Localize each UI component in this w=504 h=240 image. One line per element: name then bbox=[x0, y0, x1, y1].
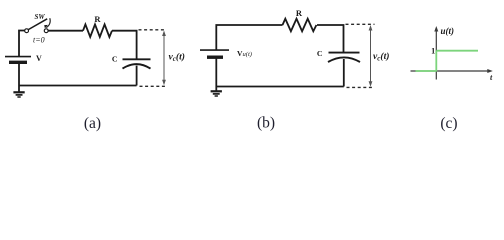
ground (a) bbox=[13, 86, 24, 98]
svg-text:1: 1 bbox=[431, 47, 435, 56]
bottom wire (a) bbox=[19, 85, 137, 87]
dashed lead bottom (a) bbox=[140, 85, 166, 87]
svg-text:t=0: t=0 bbox=[33, 35, 45, 44]
svg-text:t: t bbox=[490, 73, 493, 82]
resistor R (a) bbox=[83, 24, 112, 37]
battery Vu(t) (b) bbox=[200, 50, 229, 57]
svg-text:C: C bbox=[112, 55, 118, 64]
step function u(t) green trace bbox=[416, 51, 479, 72]
capacitor C (b) bbox=[328, 53, 360, 62]
arrow vc(t) (a) bbox=[162, 31, 166, 86]
wire top-left stub circuit a bbox=[19, 31, 25, 57]
svg-text:(b): (b) bbox=[257, 114, 275, 131]
dashed lead top (b) bbox=[346, 23, 375, 25]
svg-text:vc(t): vc(t) bbox=[373, 51, 389, 63]
wire resistor to right corner (b) bbox=[317, 25, 344, 53]
bottom wire (b) bbox=[216, 86, 343, 88]
svg-text:R: R bbox=[296, 8, 303, 18]
ground (b) bbox=[211, 87, 222, 97]
capacitor C (a) bbox=[123, 59, 151, 68]
wire battery to bottom (a) bbox=[18, 62, 20, 85]
wire top-left corner circuit b bbox=[216, 25, 282, 50]
resistor R (b) bbox=[283, 19, 317, 32]
svg-text:R: R bbox=[94, 14, 101, 24]
arrow vc(t) (b) bbox=[369, 25, 373, 87]
svg-text:V: V bbox=[36, 54, 42, 63]
svg-text:(c): (c) bbox=[440, 115, 457, 132]
dashed lead bottom (b) bbox=[347, 86, 375, 88]
svg-text:vc(t): vc(t) bbox=[169, 51, 185, 63]
wire battery to bottom (b) bbox=[215, 57, 217, 86]
switch SW bbox=[25, 18, 51, 32]
svg-text:u(t): u(t) bbox=[441, 26, 455, 36]
wire switch to resistor bbox=[48, 30, 83, 32]
svg-text:C: C bbox=[317, 49, 323, 58]
wire capacitor to bottom (b) bbox=[343, 59, 345, 87]
wire capacitor to bottom (a) bbox=[136, 66, 138, 86]
axis vertical u(t) graph bbox=[434, 26, 438, 80]
dashed lead top (a) bbox=[139, 29, 166, 31]
svg-text:Vu(t): Vu(t) bbox=[237, 49, 252, 58]
wire resistor to right corner bbox=[112, 31, 137, 60]
svg-text:SW: SW bbox=[34, 13, 45, 21]
axis horizontal t graph bbox=[411, 69, 493, 73]
battery V (a) bbox=[5, 57, 31, 63]
svg-text:(a): (a) bbox=[84, 115, 101, 132]
